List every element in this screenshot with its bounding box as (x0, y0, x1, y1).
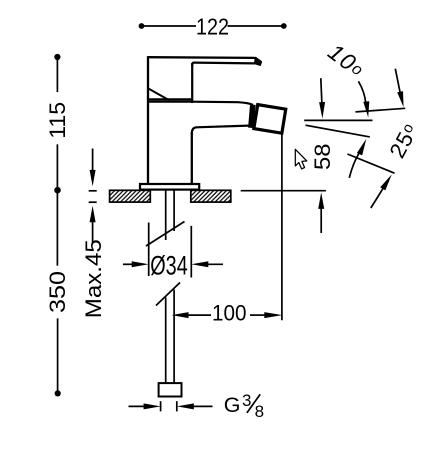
spout junction bar (251, 105, 253, 128)
100 left arrowhead (172, 312, 189, 318)
faucet body right edge (191, 133, 193, 185)
100 extension line (281, 135, 283, 321)
deck left block (110, 190, 151, 202)
G3/8 right arrow (192, 405, 213, 407)
base plate (140, 184, 199, 190)
100 right arrowhead (264, 312, 282, 318)
break diagonal upper (146, 222, 185, 247)
G3/8 left arrow (129, 405, 146, 407)
angle line A horizontal (304, 119, 372, 121)
dia34 left arrow (123, 263, 133, 265)
left dim middle dot (54, 187, 61, 194)
aerator (254, 105, 286, 134)
faucet body left edge (147, 56, 149, 184)
svg-text:Ø34: Ø34 (150, 250, 188, 280)
hose connector (159, 383, 182, 396)
break diagonal lower (156, 283, 180, 306)
mouse cursor (295, 149, 307, 169)
Max.45 dimension line (89, 149, 97, 244)
svg-text:115: 115 (45, 102, 70, 139)
dia34 right extension line (190, 226, 192, 278)
svg-text:Max.45: Max.45 (81, 239, 106, 318)
faucet body top / spout top edge (147, 102, 253, 105)
25deg lower arrow (371, 188, 384, 208)
10deg slant arrow (395, 69, 400, 94)
faucet handle joint vertical (191, 63, 193, 103)
58 dimension top arrow (321, 78, 322, 103)
G3/8 left tick (160, 401, 162, 411)
dimension 122 left dot (139, 23, 145, 29)
left dimension line (115/350) (56, 57, 58, 393)
faucet lever top edge (148, 56, 256, 59)
angle line C 10deg (306, 125, 370, 137)
left dim bottom dot (55, 390, 61, 396)
Max.45 down arrowhead (90, 170, 96, 187)
dimension 122 line (142, 25, 284, 27)
svg-text:58: 58 (310, 144, 335, 171)
angle line D 25deg (347, 154, 394, 173)
faucet lever tip (255, 58, 261, 66)
faucet lever arm bottom edge (192, 63, 255, 66)
dia34 right arrow (207, 263, 224, 265)
faucet lever bottom line (148, 98, 192, 100)
dimension 122 right dot (281, 23, 287, 29)
shank right line lower (173, 290, 175, 384)
100 dimension line (187, 314, 211, 316)
shank left line upper (165, 190, 167, 240)
58 dimension bottom arrow (320, 208, 322, 234)
10deg arc arrow (358, 81, 365, 103)
shank right line upper (173, 190, 175, 231)
G3/8 fraction slash (247, 394, 260, 413)
deck right block (191, 190, 231, 202)
faucet handle chamfer (149, 89, 170, 101)
svg-text:122: 122 (196, 13, 229, 39)
angle line B upper (356, 108, 406, 112)
Max.45 up arrowhead (90, 206, 96, 223)
dia34 left extension line (148, 223, 150, 277)
svg-text:350: 350 (45, 271, 70, 313)
svg-text:G: G (224, 393, 241, 417)
deck reference line right (241, 190, 326, 192)
G3/8 right tick (176, 401, 178, 411)
svg-text:8: 8 (255, 402, 264, 421)
svg-text:100: 100 (212, 301, 247, 326)
25deg upper curved arrow (349, 152, 359, 178)
left dim top dot (54, 54, 60, 60)
shank left line lower (165, 298, 167, 384)
faucet spout bottom edge (192, 126, 253, 134)
